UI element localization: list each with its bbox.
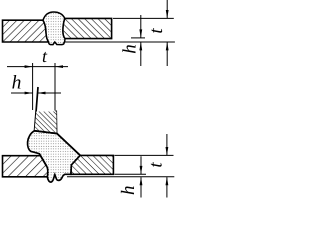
dimension t (top figure): up arrow [166,42,168,66]
left plate bottom figure (hatched /) [3,156,48,177]
dimension h (bottom figure): down arrow [140,156,142,174]
extension line: right plate top surface [113,17,174,19]
weld nugget (stippled) [28,131,81,182]
svg-text:t: t [146,28,167,34]
dimension h (bottom figure): up arrow [140,177,142,197]
dimension h (top figure): down arrow [140,15,142,38]
extension: right plate bottom (short, for h) [115,173,147,175]
svg-text:t: t [146,162,167,168]
dimension h line (horizontal) [11,92,33,94]
upper stub hatch [35,112,57,134]
extension line A (lower member left face) [32,63,34,110]
upper stub left edge [35,87,39,131]
right plate (hatched \) [63,18,112,38]
weld nugget top-right straight boundary redraw [35,131,81,156]
dimension h (top figure): up arrow [140,42,142,66]
extension: right plate top surface [115,154,174,156]
projected line: left plate bottom surface [64,41,175,43]
extension line: right plate bottom (short, for h) [131,37,145,39]
left plate (hatched /) [3,20,49,42]
extension line B (lower member right face) [54,63,56,111]
upper stub right edge [55,111,57,134]
left plate fusion diagonal redraw [39,154,46,167]
svg-text:h: h [12,73,22,94]
weld bead (stippled) [43,12,65,45]
dimension t (bottom figure): up arrow [166,177,168,197]
dimension t line (horizontal) [7,66,68,68]
right plate bottom figure (hatched \) [71,155,113,174]
svg-text:h: h [118,185,139,195]
svg-text:h: h [120,44,141,54]
projected line: left plate bottom [67,176,174,178]
dimension t (top figure): down arrow [166,0,168,18]
dimension t (bottom figure): down arrow [166,134,168,155]
